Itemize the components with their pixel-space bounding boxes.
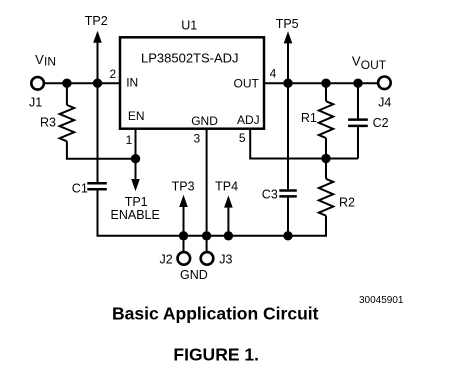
svg-text:LP38502TS-ADJ: LP38502TS-ADJ <box>141 51 239 66</box>
svg-text:ADJ: ADJ <box>237 113 260 127</box>
svg-text:30045901: 30045901 <box>359 295 404 306</box>
svg-text:EN: EN <box>128 109 145 123</box>
svg-text:J3: J3 <box>219 253 232 267</box>
svg-text:ENABLE: ENABLE <box>111 208 160 222</box>
svg-text:TP3: TP3 <box>172 180 195 194</box>
svg-text:R3: R3 <box>40 116 56 130</box>
svg-text:GND: GND <box>180 268 208 282</box>
svg-text:1: 1 <box>126 133 133 147</box>
svg-text:J4: J4 <box>378 96 391 110</box>
svg-text:C3: C3 <box>262 188 278 202</box>
svg-text:IN: IN <box>126 76 138 90</box>
svg-text:OUT: OUT <box>361 58 387 72</box>
svg-text:V: V <box>35 52 44 67</box>
svg-text:C1: C1 <box>72 182 88 196</box>
svg-text:R1: R1 <box>301 111 317 125</box>
svg-text:2: 2 <box>110 67 117 81</box>
svg-text:R2: R2 <box>339 195 355 209</box>
svg-text:TP5: TP5 <box>276 17 299 31</box>
svg-text:TP4: TP4 <box>215 180 238 194</box>
svg-text:3: 3 <box>194 132 201 146</box>
svg-text:5: 5 <box>239 131 246 145</box>
svg-text:4: 4 <box>270 66 277 80</box>
svg-text:J1: J1 <box>29 96 42 110</box>
svg-text:TP2: TP2 <box>85 14 108 28</box>
svg-text:FIGURE 1.: FIGURE 1. <box>173 345 259 365</box>
svg-text:C2: C2 <box>373 116 389 130</box>
svg-text:IN: IN <box>44 55 56 69</box>
svg-text:U1: U1 <box>181 19 197 33</box>
svg-text:J2: J2 <box>160 253 173 267</box>
svg-text:OUT: OUT <box>234 77 260 91</box>
svg-text:GND: GND <box>191 114 218 128</box>
svg-text:TP1: TP1 <box>125 195 148 209</box>
svg-text:V: V <box>352 53 361 68</box>
svg-text:Basic Application Circuit: Basic Application Circuit <box>112 303 319 323</box>
